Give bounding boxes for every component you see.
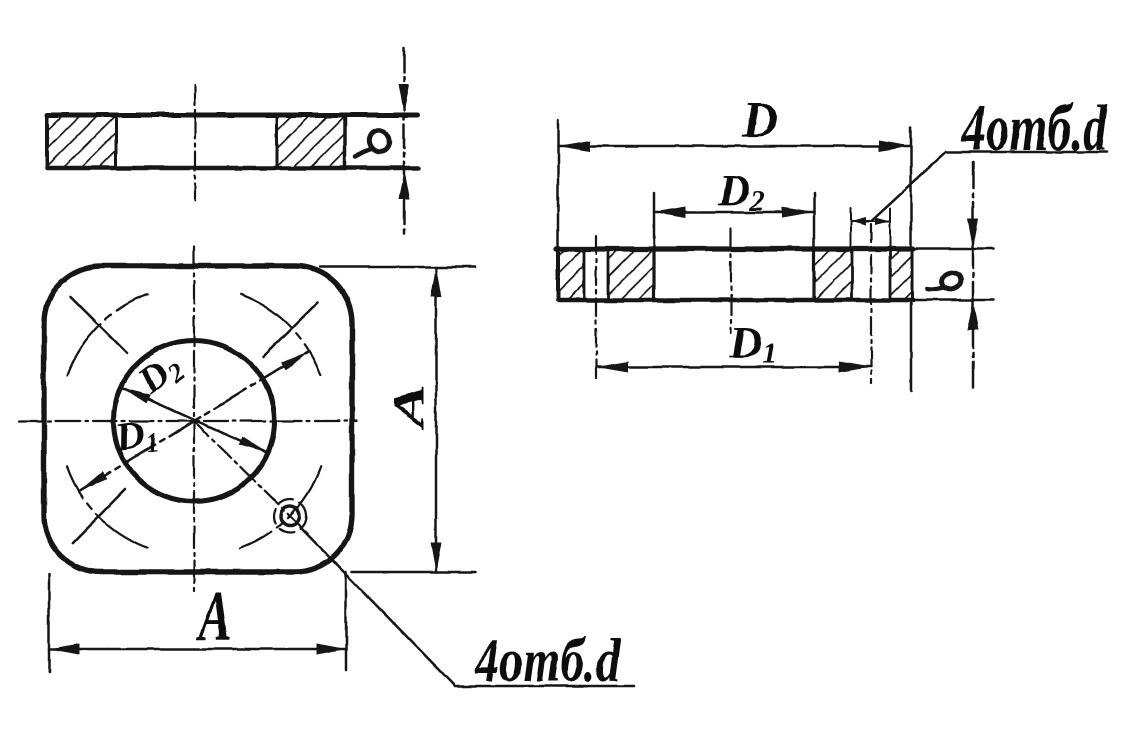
svg-text:D: D	[741, 91, 778, 147]
svg-text:4omб.d: 4omб.d	[474, 626, 621, 695]
svg-text:A: A	[384, 384, 433, 430]
svg-text:A: A	[196, 577, 232, 657]
svg-text:4omб.d: 4omб.d	[961, 90, 1108, 164]
